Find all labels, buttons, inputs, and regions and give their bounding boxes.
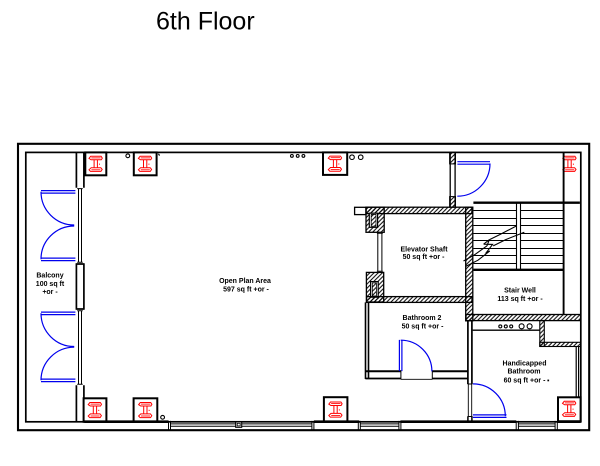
svg-text:Handicapped: Handicapped <box>503 361 547 368</box>
window glazing 3 <box>360 424 399 426</box>
outlet circles top wall <box>126 154 363 160</box>
column box B6 <box>324 397 348 422</box>
outlet circle bottom wall <box>161 415 165 419</box>
svg-text:113 sq ft +or -: 113 sq ft +or - <box>497 296 543 303</box>
svg-text:6th Floor: 6th Floor <box>156 8 255 36</box>
svg-text:Stair Well: Stair Well <box>504 287 536 294</box>
stairs top line <box>473 201 580 203</box>
elevator door track <box>377 233 383 271</box>
window jambs bottom wall <box>169 421 558 430</box>
stair treads <box>474 211 564 264</box>
balcony french door pair 1 <box>41 191 75 261</box>
window glazing 4 <box>518 424 555 426</box>
elevator front wall lower block <box>366 272 383 302</box>
inner wall line <box>26 152 581 421</box>
landing wall hatch upper <box>450 152 456 164</box>
svg-text:597 sq ft +or -: 597 sq ft +or - <box>223 287 269 294</box>
elevator front wall upper block <box>366 207 384 232</box>
column box B2 <box>134 152 157 175</box>
bathroom2 door (blue) <box>399 340 432 372</box>
window glazing 1 <box>171 424 236 426</box>
svg-text:Elevator Shaft: Elevator Shaft <box>400 247 448 254</box>
landing wall (stair access) <box>450 152 455 207</box>
stair door (blue) <box>457 162 490 197</box>
bathroom2 bottom wall <box>365 370 467 379</box>
window glazing 2 <box>242 424 312 426</box>
svg-text:Bathroom: Bathroom <box>507 368 540 375</box>
elevator front wall upper column box <box>369 213 377 227</box>
bottom wall solid band <box>84 420 580 423</box>
column box B7 <box>558 397 581 421</box>
column box B5 <box>134 398 158 422</box>
landing wall hatch lower <box>450 197 456 208</box>
outer wall <box>18 144 589 430</box>
elevator front wall lower column box <box>371 282 379 298</box>
column box B1 <box>85 152 106 175</box>
balcony french door pair 2 <box>41 312 75 382</box>
bathroom2 left wall <box>366 302 369 379</box>
balcony wall upper segment <box>76 152 84 187</box>
stair break line <box>464 226 525 267</box>
stairwell bottom wall <box>466 315 581 321</box>
handicapped right lining <box>576 346 578 397</box>
balcony door track 1 <box>77 189 83 263</box>
stair right wall line <box>563 152 565 314</box>
svg-text:Open Plan Area: Open Plan Area <box>219 278 271 285</box>
duct alcove left wall <box>540 321 545 347</box>
svg-text:Balcony: Balcony <box>36 272 63 279</box>
svg-text:+or -: +or - <box>42 289 58 296</box>
balcony wall lower segment <box>76 385 84 422</box>
elevator top wall <box>366 207 472 213</box>
svg-text:Bathroom 2: Bathroom 2 <box>403 315 442 322</box>
column box B4 <box>84 398 107 422</box>
column box B3 <box>323 152 347 175</box>
svg-text:50 sq ft +or -: 50 sq ft +or - <box>402 323 444 330</box>
small dot <box>547 380 549 382</box>
window marker box <box>236 422 242 427</box>
elevator bottom wall <box>367 297 472 303</box>
handicapped vent circles <box>499 324 532 329</box>
duct alcove bottom wall <box>540 342 581 346</box>
balcony door track 2 <box>77 311 83 385</box>
stairs bottom line <box>474 269 564 271</box>
balcony wall middle segment <box>76 263 84 310</box>
column top right <box>563 156 576 171</box>
handicapped left wall <box>468 321 473 422</box>
stair stringer <box>517 203 521 270</box>
handicapped door (blue) <box>473 384 507 418</box>
elevator top wall tab <box>355 207 366 214</box>
elevator right wall / stair left wall <box>466 207 473 321</box>
svg-text:50 sq ft +or -: 50 sq ft +or - <box>403 254 445 261</box>
handicapped bathroom top line <box>473 329 540 331</box>
svg-text:60 sq ft +or -: 60 sq ft +or - <box>504 377 546 384</box>
svg-text:100 sq ft: 100 sq ft <box>36 281 65 288</box>
